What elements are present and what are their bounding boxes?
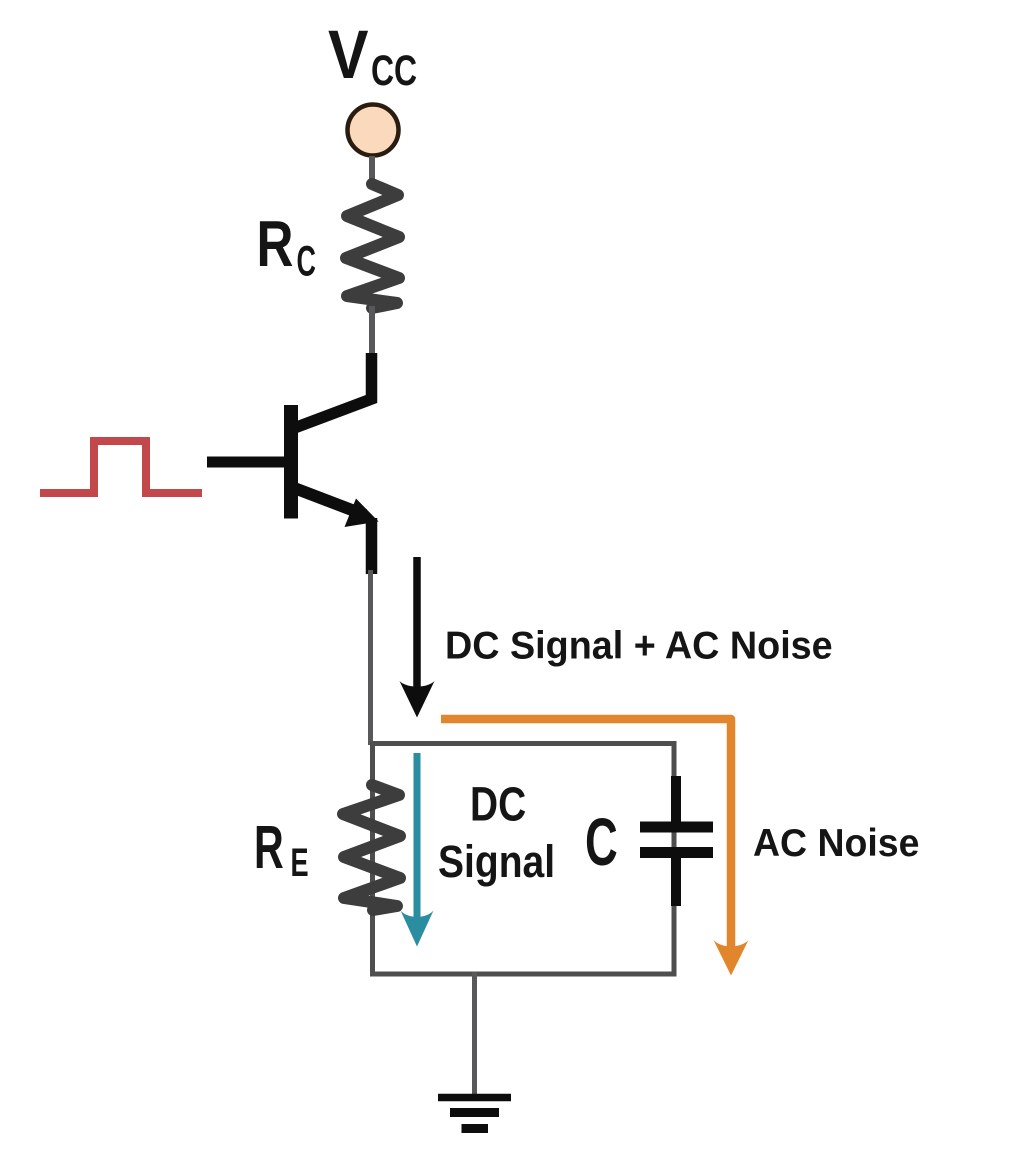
svg-text:E: E	[291, 841, 309, 885]
svg-text:DC: DC	[470, 778, 526, 832]
svg-text:R: R	[254, 814, 284, 882]
svg-text:AC Noise: AC Noise	[753, 821, 919, 865]
svg-text:C: C	[297, 237, 316, 285]
svg-text:C: C	[585, 805, 618, 880]
svg-text:V: V	[328, 15, 369, 93]
svg-text:DC Signal + AC Noise: DC Signal + AC Noise	[445, 624, 833, 668]
svg-text:R: R	[257, 208, 294, 280]
svg-text:Signal: Signal	[438, 836, 555, 886]
svg-text:CC: CC	[371, 48, 417, 96]
